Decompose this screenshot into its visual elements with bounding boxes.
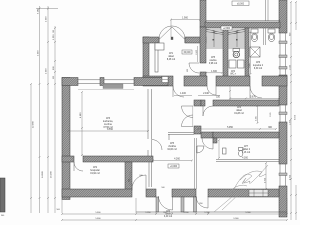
door bottom wall into closet room — [132, 175, 146, 189]
svg-text:5.800: 5.800 — [95, 218, 101, 220]
wall right exterior — [279, 0, 287, 217]
wall left exterior lower block — [62, 78, 70, 200]
label level box 1P1 — [182, 50, 192, 54]
wall top of room 1P2 — [62, 156, 153, 162]
dim interior 8.550 horizontal — [67, 129, 149, 132]
svg-text:4.260: 4.260 — [174, 159, 180, 161]
door oddiel top — [202, 138, 213, 149]
door wall K chodba — [173, 86, 184, 97]
svg-text:1P3: 1P3 — [106, 118, 111, 120]
wall between 1P1 and stair — [200, 27, 206, 83]
svg-text:1.965: 1.965 — [196, 49, 198, 55]
svg-text:5.185: 5.185 — [38, 8, 40, 14]
wall top of sklad room — [201, 100, 279, 106]
dim interior 5.950 horizontal — [197, 127, 277, 130]
label room 1P4 wc — [230, 71, 236, 76]
door double entry top arcs — [159, 26, 185, 40]
courtyard bottom edge line — [206, 20, 280, 22]
svg-text:kuchna: kuchna — [104, 124, 112, 126]
svg-text:hospodar: hospodar — [90, 169, 100, 172]
dim 1.900 above entry — [170, 18, 201, 38]
partition closet right thin — [149, 162, 152, 187]
cabinet left of entry — [155, 43, 164, 50]
wc fixture middle bath — [233, 49, 240, 58]
svg-text:+2,800: +2,800 — [223, 28, 231, 30]
svg-text:22.080: 22.080 — [33, 121, 35, 128]
svg-text:8.550: 8.550 — [107, 129, 113, 131]
doors hallway double swing — [182, 106, 194, 127]
wall stub left of oddiel room — [213, 138, 217, 143]
dim interior vertical near 1P1 door — [196, 46, 198, 62]
partition chodba east thin — [195, 138, 197, 189]
svg-text:1.525: 1.525 — [290, 64, 292, 70]
svg-text:1,16 m2: 1,16 m2 — [242, 152, 251, 154]
staircase walk line arrows — [213, 31, 238, 47]
svg-text:900: 900 — [187, 69, 189, 72]
partition wc stalls — [264, 28, 266, 45]
dim chain bottom — [61, 198, 288, 221]
svg-text:19,92 m2: 19,92 m2 — [90, 173, 100, 175]
svg-text:1.965: 1.965 — [249, 63, 251, 68]
svg-text:±0,000: ±0,000 — [237, 4, 245, 6]
wall vertical closet left — [125, 162, 132, 190]
svg-text:9.960: 9.960 — [233, 218, 239, 220]
svg-text:2.500: 2.500 — [38, 50, 40, 56]
svg-text:4.980: 4.980 — [80, 112, 82, 118]
svg-text:14.080: 14.080 — [42, 171, 44, 178]
svg-text:1.350: 1.350 — [145, 212, 151, 214]
radiator 1P1 — [155, 44, 158, 72]
wall vertical sklad left — [194, 100, 201, 134]
label room 1P4 sklad — [234, 107, 244, 115]
svg-text:1.900: 1.900 — [182, 18, 188, 20]
svg-text:3.300: 3.300 — [183, 212, 189, 214]
svg-text:WC z: WC z — [230, 74, 236, 76]
partition kitchen east thin — [148, 89, 152, 157]
svg-text:3.185: 3.185 — [256, 116, 258, 121]
text corner 300 — [1, 215, 4, 217]
wall left of room 1P1 — [143, 37, 149, 83]
dim chain hallway right — [229, 87, 280, 101]
svg-text:4.700: 4.700 — [290, 174, 292, 180]
counter right bath — [250, 47, 260, 57]
svg-text:1.350: 1.350 — [290, 119, 292, 125]
label room chodba — [167, 143, 177, 151]
dim 750 vertical near closet door — [129, 171, 131, 186]
svg-text:1.350: 1.350 — [53, 34, 55, 40]
partition below oddiel — [216, 160, 279, 162]
corner sink chodba — [197, 146, 204, 153]
svg-text:34,06 m2: 34,06 m2 — [167, 149, 177, 151]
wall top of lower-left block with windows — [62, 78, 168, 86]
svg-text:1P4: 1P4 — [237, 107, 242, 109]
wall stubs below bottom wall — [156, 197, 197, 212]
door 1P5 bottom — [207, 86, 216, 95]
svg-text:500: 500 — [161, 187, 164, 189]
staircase left flight treads — [206, 29, 223, 48]
svg-text:kupelna 2: kupelna 2 — [253, 65, 264, 67]
dim 1P5 width — [205, 71, 223, 74]
svg-text:1P1: 1P1 — [169, 53, 174, 55]
svg-text:studna: studna — [210, 59, 218, 62]
svg-text:1.525: 1.525 — [270, 113, 272, 118]
dim chain right — [290, 1, 297, 220]
svg-text:850: 850 — [199, 203, 202, 205]
svg-text:±0,000: ±0,000 — [183, 52, 191, 54]
window right wall sklad — [279, 105, 287, 122]
svg-text:5.670: 5.670 — [250, 97, 256, 99]
wall bottom of upper block — [143, 76, 287, 86]
window in wall K small — [162, 77, 168, 83]
svg-text:1P7: 1P7 — [244, 146, 249, 148]
dim 4.700 interior right room — [265, 162, 268, 190]
svg-text:2.040: 2.040 — [203, 93, 209, 95]
label room 1P2 — [90, 167, 100, 175]
svg-text:1.700: 1.700 — [204, 212, 210, 214]
dim left ticks — [30, 8, 56, 200]
svg-text:1P2: 1P2 — [93, 167, 98, 169]
dim left texts rotated — [33, 8, 61, 211]
wall top of stair block — [205, 22, 280, 28]
wall between 1P5 and bath — [245, 28, 249, 83]
door balcony right — [196, 196, 208, 208]
svg-text:chodba: chodba — [168, 146, 176, 148]
wall left-top-courtyard vertical — [200, 0, 206, 27]
svg-text:600: 600 — [53, 76, 55, 79]
door sklad top — [203, 106, 213, 116]
wc fixture stall 1 — [251, 29, 258, 42]
svg-text:sklad: sklad — [236, 110, 242, 112]
dim sklad vertical 3.185 — [256, 105, 259, 124]
staircase label box — [221, 26, 232, 30]
svg-text:9.050: 9.050 — [295, 114, 297, 120]
svg-text:19,28 m2: 19,28 m2 — [234, 113, 244, 115]
label balcony room — [164, 211, 173, 218]
svg-text:+0,000: +0,000 — [170, 166, 178, 168]
sink middle bath — [229, 60, 244, 68]
svg-text:oddiel 2: oddiel 2 — [242, 149, 251, 151]
svg-text:5.950: 5.950 — [227, 127, 233, 129]
radiator kitchen under window — [78, 84, 134, 90]
svg-text:5.800: 5.800 — [95, 212, 101, 214]
small fixture oddiel left — [223, 148, 227, 154]
door room 1P2 top — [74, 162, 83, 171]
dim interior 1.400 / 2.040 top of hallway — [174, 93, 257, 99]
svg-text:180: 180 — [53, 30, 55, 33]
label room oddiel — [242, 146, 251, 154]
label room 1P5 — [209, 57, 218, 65]
svg-text:1.400: 1.400 — [180, 93, 186, 95]
wall top of room 1P1 right segment — [185, 37, 206, 43]
wc fixture stall 2 — [268, 29, 275, 42]
svg-text:1P5: 1P5 — [170, 143, 175, 145]
partition chodba north thin — [168, 133, 194, 140]
label courtyard level box — [232, 1, 249, 6]
balcony bottom edge — [136, 211, 287, 213]
svg-text:4.700: 4.700 — [265, 177, 267, 183]
label room 1P6 — [253, 62, 264, 70]
dim chain left lines — [31, 6, 58, 213]
svg-text:1P5: 1P5 — [211, 57, 216, 59]
wall bottom of sklad room — [201, 132, 279, 138]
door chodba west — [152, 140, 163, 151]
entry jamb lines — [159, 37, 184, 43]
window in bottom wall right — [249, 190, 268, 197]
wc fixture oddiel — [239, 148, 244, 157]
neighbor wall bottom-left edge — [0, 178, 5, 212]
svg-text:8,48 m2: 8,48 m2 — [167, 59, 176, 61]
svg-text:900: 900 — [139, 175, 142, 177]
dim small oddiel — [218, 139, 249, 160]
staircase right flight treads — [228, 29, 245, 48]
svg-text:kucharna,: kucharna, — [103, 120, 113, 123]
scribble mark bottom right — [214, 165, 268, 212]
dim text sklad window — [270, 113, 272, 118]
svg-text:5.960: 5.960 — [245, 212, 251, 214]
svg-text:1P6: 1P6 — [256, 62, 261, 64]
svg-text:6,30 m2: 6,30 m2 — [254, 68, 263, 70]
label room 1P3 — [103, 118, 114, 129]
label room 1P1 — [167, 53, 176, 61]
svg-text:3,98 m2: 3,98 m2 — [209, 63, 218, 65]
door bath right — [250, 86, 262, 98]
dim 4.260 chodba — [152, 159, 193, 162]
dim small near bottom doors — [139, 175, 202, 205]
wall top of room 1P1 left segment — [143, 37, 159, 43]
wall stair spine — [223, 28, 228, 83]
downpipe courtyard — [266, 0, 269, 21]
dim interior 4.980 vertical — [80, 91, 83, 156]
svg-text:300: 300 — [1, 215, 4, 217]
door 1P1 right wall — [187, 63, 199, 73]
door balcony left — [159, 196, 173, 210]
svg-text:2.500: 2.500 — [46, 16, 48, 22]
window right wall terasa — [279, 164, 287, 186]
dim bath vertical — [249, 31, 252, 75]
svg-text:16.280: 16.280 — [51, 171, 53, 178]
label level box chodba — [168, 164, 179, 168]
svg-text:750: 750 — [129, 179, 131, 182]
svg-text:2.300: 2.300 — [46, 68, 48, 74]
dim bottom texts — [95, 212, 251, 220]
svg-text:1.300: 1.300 — [211, 71, 217, 73]
window right wall bath — [279, 33, 287, 75]
svg-text:4.300: 4.300 — [242, 158, 248, 160]
wall bottom main — [62, 189, 279, 197]
dim right texts — [290, 32, 297, 180]
svg-text:3,40 m2: 3,40 m2 — [164, 216, 173, 218]
svg-text:sklad: sklad — [168, 56, 174, 58]
